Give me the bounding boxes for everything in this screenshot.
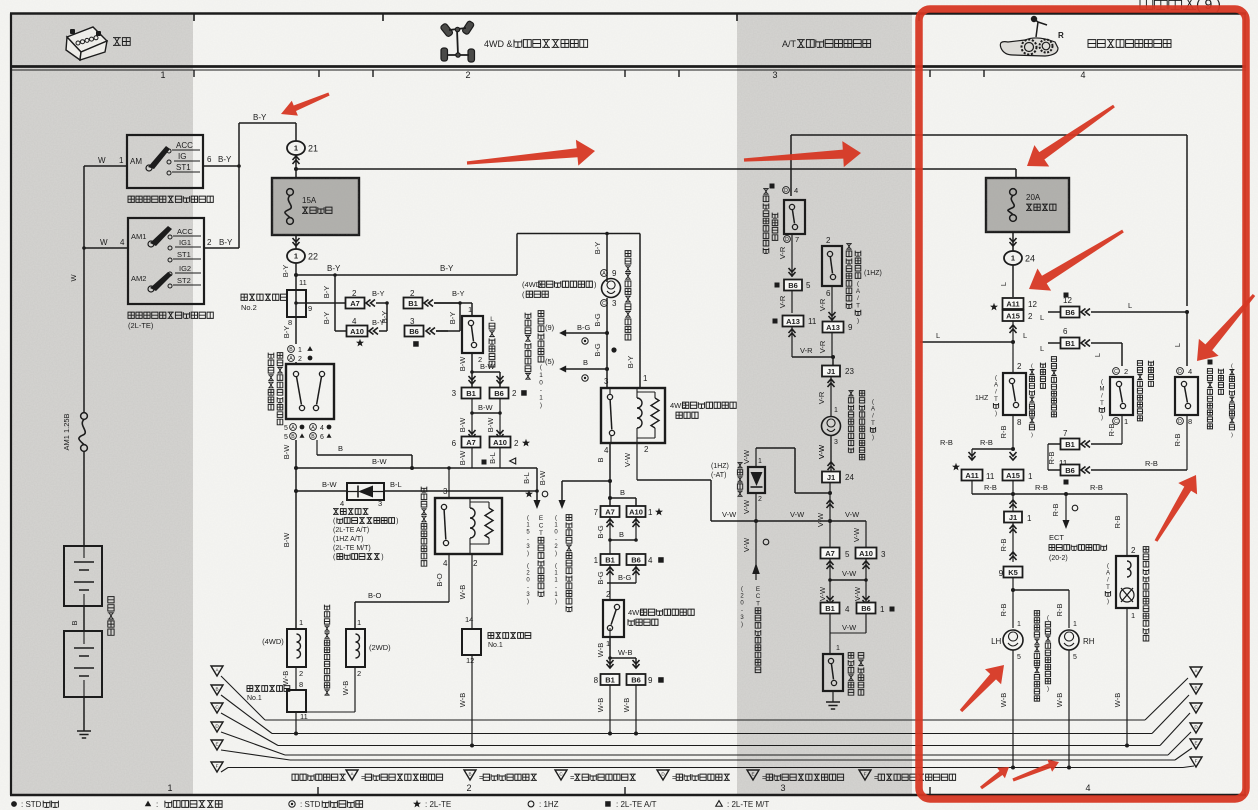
node B branch to A10 <box>608 496 612 500</box>
connector B6 pin11 col4 <box>1059 459 1068 468</box>
svg-text:B-W: B-W <box>478 403 494 412</box>
svg-text:1: 1 <box>294 144 298 153</box>
grey tone column 1 (power source) <box>11 14 193 795</box>
svg-text:L: L <box>1128 301 1132 310</box>
ignition switch upper box <box>127 135 203 188</box>
svg-text:6: 6 <box>452 439 457 448</box>
svg-text:B: B <box>1194 686 1197 691</box>
wire relay pin2 V-W to col3 <box>636 443 638 480</box>
switch backup lamp switch M/T <box>1113 368 1120 375</box>
connector B6 pin1 col3 <box>857 603 876 614</box>
svg-text:R-B: R-B <box>1051 504 1060 517</box>
svg-text:(4WD): (4WD) <box>262 637 284 646</box>
wire below 22 <box>295 263 297 317</box>
svg-text:B-W: B-W <box>372 457 388 466</box>
battery cells lower box <box>64 631 102 697</box>
svg-text:W-B: W-B <box>1113 693 1122 707</box>
svg-text:R-B: R-B <box>1090 483 1103 492</box>
svg-text:T: T <box>1100 401 1104 407</box>
svg-text:4: 4 <box>320 425 324 432</box>
svg-text::: : <box>156 800 158 809</box>
svg-text:C: C <box>539 523 544 530</box>
svg-text:(: ( <box>1231 363 1233 369</box>
label V-R on angle wire <box>800 346 813 355</box>
svg-text:B: B <box>583 358 588 367</box>
svg-text:A7: A7 <box>466 438 476 447</box>
svg-text:C: C <box>756 593 761 600</box>
svg-text:1: 1 <box>299 618 303 627</box>
wire V-R <box>791 290 793 313</box>
svg-text:E: E <box>1194 741 1197 746</box>
svg-text:12: 12 <box>466 656 474 665</box>
svg-text:B-W: B-W <box>486 417 495 433</box>
red arrow 6 at D4 backup switch <box>1197 294 1255 361</box>
label リバースウォーニングブザー vertical <box>1143 547 1149 641</box>
wire below 4WD indicator switch <box>606 639 610 648</box>
svg-text:-: - <box>741 608 743 614</box>
svg-text:W-B: W-B <box>999 693 1008 707</box>
legend row bottom <box>11 801 17 807</box>
svg-text:1: 1 <box>1017 621 1021 628</box>
svg-text:B: B <box>289 347 293 353</box>
svg-text:W-B: W-B <box>622 698 631 712</box>
svg-text:L: L <box>1040 344 1044 353</box>
svg-text:B1: B1 <box>825 604 835 613</box>
svg-text:: 2L-TE A/T: : 2L-TE A/T <box>616 800 657 809</box>
svg-text:B6: B6 <box>1065 466 1075 475</box>
svg-text:R-B: R-B <box>980 438 993 447</box>
svg-text:3: 3 <box>834 439 838 446</box>
svg-text:D: D <box>1178 419 1182 425</box>
label ECTコンピューターへ(15-3)(20-3) vertical <box>526 516 530 558</box>
wire into connector 21 <box>295 123 297 141</box>
svg-text:-: - <box>527 585 529 591</box>
page frame left line <box>10 14 12 796</box>
svg-text:B-O: B-O <box>435 573 444 587</box>
svg-text:9: 9 <box>848 323 853 332</box>
svg-text:): ) <box>527 551 529 557</box>
svg-text:4: 4 <box>604 446 609 455</box>
svg-text:6: 6 <box>320 434 324 441</box>
svg-text:(: ( <box>872 400 874 406</box>
wire junction to J1-23 <box>832 357 834 365</box>
svg-text:14: 14 <box>465 615 473 624</box>
svg-text:E: E <box>751 772 754 777</box>
svg-text:15A: 15A <box>302 196 317 205</box>
svg-text:1: 1 <box>167 783 172 793</box>
wire V-R down <box>791 234 793 277</box>
svg-text:1: 1 <box>1028 472 1033 481</box>
svg-text:A/T: A/T <box>782 39 797 49</box>
connector B1 pin7 col4 <box>1063 429 1068 438</box>
label 2 B-Y <box>207 238 212 247</box>
svg-text:6: 6 <box>207 155 212 164</box>
svg-text:T: T <box>756 601 760 608</box>
svg-text:V-W: V-W <box>790 510 805 519</box>
combination meter 4WD indicator lamp <box>602 279 621 298</box>
label アースポイント and earth legend <box>292 774 346 780</box>
fuse 15A symbol <box>287 189 294 196</box>
wire diode bottom to V-W bus <box>755 493 757 521</box>
svg-text:B-L: B-L <box>522 472 531 484</box>
svg-text:2: 2 <box>466 783 471 793</box>
svg-text:2: 2 <box>299 669 303 678</box>
svg-text:V-W: V-W <box>722 510 737 519</box>
svg-text:B: B <box>619 530 624 539</box>
svg-text:1: 1 <box>834 407 838 414</box>
svg-text:-: - <box>555 537 557 543</box>
svg-text:3: 3 <box>378 499 382 508</box>
svg-text:B-Y: B-Y <box>218 155 232 164</box>
diode front drive <box>296 490 347 492</box>
svg-text:V-R: V-R <box>817 391 826 404</box>
svg-text:ST1: ST1 <box>177 250 191 259</box>
wire below L switch <box>478 355 482 364</box>
wire battery between cells <box>83 606 85 631</box>
svg-text:T: T <box>539 530 543 537</box>
short pin No.1 left box <box>287 690 306 712</box>
svg-text:W: W <box>98 156 106 165</box>
svg-text:9: 9 <box>612 269 617 278</box>
svg-text:B1: B1 <box>408 299 418 308</box>
svg-text:12: 12 <box>1063 296 1072 305</box>
wire right rail to relay pin1 <box>639 234 641 389</box>
svg-text:22: 22 <box>308 252 318 262</box>
svg-text:2: 2 <box>644 445 649 454</box>
wire B-W bus y=468 <box>296 467 537 469</box>
wire B6 left stub <box>1048 311 1060 313</box>
connector J1 pin23 <box>822 366 840 377</box>
svg-text:B-G: B-G <box>577 323 591 332</box>
svg-text:(: ( <box>1107 564 1109 570</box>
connector A7 pin7 <box>601 506 620 517</box>
connector A10 pin4 grid <box>352 317 357 326</box>
svg-text:B-W: B-W <box>322 480 338 489</box>
svg-text:): ) <box>741 622 743 628</box>
wires B1/B6 to A7/A10 <box>471 399 473 442</box>
label イグニッションスイッチ <box>128 196 213 202</box>
red arrow 7 at R-B wire <box>1155 475 1198 542</box>
connector B6 pin9 bottom <box>627 674 646 685</box>
svg-text:/: / <box>857 295 859 302</box>
label ECTコンピューターへ(20-2) <box>1049 533 1064 542</box>
label イグニッションスイッチ(2L-TE) <box>128 312 213 318</box>
label B-Y <box>327 264 341 273</box>
page frame right line <box>1244 14 1246 796</box>
svg-text:IG2: IG2 <box>179 264 191 273</box>
chevron up below A13 <box>789 329 796 337</box>
wire relay pin4 B down <box>609 443 611 506</box>
connector A15 pin1 lower <box>1003 470 1024 481</box>
wires to B1/B6 col3 <box>829 559 831 608</box>
svg-text:): ) <box>555 551 557 557</box>
svg-text:4: 4 <box>1188 367 1192 376</box>
red highlight rectangle around column 4 <box>919 9 1246 799</box>
connector A11 pin12 with star <box>990 303 998 311</box>
svg-text:B-G: B-G <box>593 313 602 327</box>
svg-text:B-Y: B-Y <box>372 318 385 327</box>
ignition switch upper internals <box>130 157 142 166</box>
wire 2WD solenoid joins <box>354 667 356 712</box>
svg-text:B6: B6 <box>494 389 504 398</box>
svg-text:E: E <box>539 515 543 522</box>
switch neutral detect switch <box>823 654 843 691</box>
svg-text:(9): (9) <box>545 323 555 332</box>
wire W-B drops to ground bus <box>609 685 611 734</box>
node B branch to computer (5) <box>605 367 609 371</box>
svg-text:B-W: B-W <box>458 417 467 433</box>
svg-text:2: 2 <box>1131 546 1136 555</box>
svg-text:B: B <box>215 687 218 692</box>
label M/T車 left <box>1099 380 1104 422</box>
svg-text:R-B: R-B <box>984 483 997 492</box>
svg-text:R-B: R-B <box>1047 452 1056 465</box>
chevrons down to B1 B6 bottom <box>607 660 614 668</box>
label 4WDインジケータースイッチ <box>628 608 694 617</box>
svg-text:B6: B6 <box>631 675 641 684</box>
wire A/T switch pin8 down R-B <box>1012 415 1014 449</box>
connector B6 pin5 col3 <box>775 283 780 288</box>
svg-text:B6: B6 <box>409 327 419 336</box>
svg-text:: 2L-TE: : 2L-TE <box>425 800 451 809</box>
svg-text:A: A <box>1106 571 1110 577</box>
wire V-R branch down <box>831 286 833 321</box>
chevrons up below A7 A10 <box>607 519 614 527</box>
svg-text:T: T <box>856 303 860 310</box>
svg-text:B-W: B-W <box>282 444 291 460</box>
label A/T車 left of buzzer <box>1105 564 1110 606</box>
svg-text:(2L-TE M/T): (2L-TE M/T) <box>333 545 371 552</box>
wires below A7/A10 join B-W bus <box>471 448 473 468</box>
svg-text:4: 4 <box>648 556 653 565</box>
svg-text:R-B: R-B <box>940 438 953 447</box>
svg-text:RH: RH <box>1083 637 1095 646</box>
svg-text:11: 11 <box>299 278 307 287</box>
svg-text:W-B: W-B <box>458 585 467 599</box>
wire relay pin4 B-O to 2WD solenoid <box>448 554 450 602</box>
wire L stub left <box>920 341 1013 343</box>
svg-text:2: 2 <box>758 496 762 503</box>
svg-text:(2L-TE): (2L-TE) <box>128 321 154 330</box>
diode 1HZ -AT branch <box>711 463 729 470</box>
svg-text:1: 1 <box>1011 254 1015 263</box>
solenoid 4WD <box>299 618 303 627</box>
svg-text:B-G: B-G <box>596 571 605 585</box>
wire L down to A11 <box>1012 265 1014 297</box>
label ■ and D4 above parking brake switch <box>770 184 775 189</box>
svg-text:R-B: R-B <box>1173 434 1182 447</box>
svg-text:B-Y: B-Y <box>448 312 457 325</box>
svg-text:A10: A10 <box>350 327 364 336</box>
label (20-3) ECTコンピューターから vertical <box>740 587 744 629</box>
svg-text:1: 1 <box>594 556 599 565</box>
svg-text:V-W: V-W <box>742 449 751 464</box>
svg-text:21: 21 <box>308 144 318 154</box>
svg-text:1: 1 <box>643 374 648 383</box>
svg-text:1: 1 <box>1131 611 1135 620</box>
svg-text:A: A <box>291 425 295 431</box>
wire diode top to J1-24 junction <box>755 448 757 467</box>
wire right rail down to D-switch <box>1186 312 1188 366</box>
svg-text:F: F <box>1195 759 1198 764</box>
svg-text:A: A <box>311 425 315 431</box>
wire D-switch pin8 down to B6-11 <box>1186 415 1188 470</box>
svg-text:B-Y: B-Y <box>253 113 267 122</box>
relay front drive relay box <box>443 487 448 496</box>
svg-text:T: T <box>994 397 998 403</box>
svg-text:B1: B1 <box>466 389 476 398</box>
svg-text:): ) <box>995 411 997 417</box>
svg-text:B-L: B-L <box>390 480 402 489</box>
svg-text:2: 2 <box>1124 367 1128 376</box>
label フロントハブロックコンピューター(10-1) vertical <box>525 313 531 380</box>
svg-text:L: L <box>490 316 494 323</box>
svg-text:L: L <box>1093 353 1102 357</box>
svg-text:A: A <box>994 383 998 389</box>
connector B1 pin6 col4 <box>1063 327 1068 336</box>
wire to junction <box>792 356 833 358</box>
red arrow 5 at connector 24 <box>1029 230 1124 291</box>
ignition switch lower internals <box>131 232 146 241</box>
svg-text:A11: A11 <box>965 471 978 480</box>
svg-text:B6: B6 <box>788 281 798 290</box>
svg-text:ACC: ACC <box>176 141 193 150</box>
connector A10 pin3 col3 <box>856 548 877 559</box>
connector B1 pin3 <box>452 389 457 398</box>
svg-text:R-B: R-B <box>1107 424 1116 437</box>
relay 4WD indicator relay U-REL1 box <box>601 388 665 443</box>
svg-text:(-AT): (-AT) <box>711 472 726 479</box>
svg-text:7: 7 <box>795 235 799 244</box>
svg-text:8: 8 <box>288 318 292 327</box>
label フロントドライブリレー vertical <box>421 487 427 567</box>
svg-text:(: ( <box>527 564 529 570</box>
svg-text:AM2: AM2 <box>131 274 146 283</box>
wire ECT branch from R-B bus <box>1072 505 1078 511</box>
svg-text:B-Y: B-Y <box>452 289 465 298</box>
svg-text:: 1HZ: : 1HZ <box>539 800 559 809</box>
battery cells upper box <box>64 546 102 606</box>
svg-text:3: 3 <box>772 70 777 80</box>
solenoid 2WD <box>357 618 361 627</box>
relay internals coil <box>637 398 642 428</box>
header label A/Tパーキングランプ <box>782 39 871 49</box>
svg-text:V-R: V-R <box>778 295 787 308</box>
connector oval 1-22 <box>287 249 305 263</box>
wire K5 to lamps <box>1012 578 1014 628</box>
header battery icon <box>66 27 107 60</box>
svg-text:B-G: B-G <box>593 343 602 357</box>
label A/T車 1HZ left <box>993 376 998 418</box>
svg-text:B-O: B-O <box>368 591 382 600</box>
red arrow 4 at 20A fuse feed <box>1027 105 1115 167</box>
svg-text:5: 5 <box>1017 654 1021 661</box>
svg-text:23: 23 <box>845 367 854 376</box>
svg-text:B: B <box>311 434 315 440</box>
svg-text:R-B: R-B <box>1113 516 1122 529</box>
svg-text:A11: A11 <box>1006 299 1019 308</box>
svg-text:4WD &: 4WD & <box>484 39 513 49</box>
connector J1 pin1 col4 <box>1004 512 1022 523</box>
label 4WDインジケーターランプ <box>522 280 597 289</box>
svg-text:W: W <box>69 274 78 282</box>
svg-text:L: L <box>1040 313 1044 322</box>
svg-text:): ) <box>381 554 383 561</box>
svg-text:A10: A10 <box>629 507 643 516</box>
connector A10 pin2 star <box>490 437 511 448</box>
label 4WDインジケーターリレー <box>670 401 736 410</box>
svg-text:2: 2 <box>514 439 519 448</box>
svg-text:(5): (5) <box>545 357 555 366</box>
svg-text:3: 3 <box>443 487 448 496</box>
svg-text:8: 8 <box>594 676 599 685</box>
label ダイオード(フロントドライブ) etc <box>333 509 368 515</box>
svg-text:J1: J1 <box>827 367 835 376</box>
svg-text:B-Y: B-Y <box>440 264 454 273</box>
svg-text:W-B: W-B <box>596 698 605 712</box>
node main B-Y feed junction <box>295 155 297 178</box>
svg-text:IG1: IG1 <box>179 238 191 247</box>
svg-text:(2L-TE A/T): (2L-TE A/T) <box>333 527 369 534</box>
svg-text:8: 8 <box>1017 418 1022 427</box>
svg-text:4: 4 <box>340 499 344 508</box>
label フロントドライブコントロールスイッチ vertical <box>268 353 274 410</box>
svg-text:): ) <box>872 435 874 441</box>
svg-text:): ) <box>1101 415 1103 421</box>
bottom frame thick line <box>10 794 1246 797</box>
svg-text:11: 11 <box>808 317 817 326</box>
svg-text:D: D <box>1178 369 1182 375</box>
svg-text:B1: B1 <box>1065 339 1075 348</box>
svg-text:B6: B6 <box>861 604 871 613</box>
svg-text:No.2: No.2 <box>241 303 257 312</box>
wire fuse to connector 24 <box>1010 238 1017 246</box>
svg-text:R-B: R-B <box>1145 459 1158 468</box>
svg-text:1: 1 <box>468 305 472 314</box>
svg-text:B-W: B-W <box>458 356 467 372</box>
connector A15 pin2 <box>1003 310 1024 321</box>
wire B6-12 to right rail <box>1091 311 1187 313</box>
svg-text:2: 2 <box>1017 362 1022 371</box>
svg-text:AM: AM <box>130 157 142 166</box>
wire R-B to reverse warning buzzer <box>1126 494 1128 556</box>
svg-text:): ) <box>1031 432 1033 438</box>
svg-text:24: 24 <box>845 473 854 482</box>
svg-text:ST2: ST2 <box>177 276 191 285</box>
node W wire from battery to ignition switches <box>84 165 127 167</box>
short pin No.1 center chain <box>465 615 473 624</box>
svg-text:V-W: V-W <box>817 444 826 459</box>
ground bus right earth triangles <box>1190 667 1202 677</box>
svg-text:A: A <box>602 271 606 277</box>
front drive relay pins <box>443 559 448 568</box>
chevrons up below A15 <box>1010 325 1017 333</box>
svg-text:R-B: R-B <box>999 426 1008 439</box>
svg-text:3: 3 <box>881 550 886 559</box>
svg-text:1: 1 <box>160 70 165 80</box>
svg-text:A10: A10 <box>493 438 507 447</box>
svg-text:W-B: W-B <box>596 643 605 657</box>
page frame top line <box>10 12 1246 15</box>
svg-text:B: B <box>338 444 343 453</box>
red arrow 10 small bottom right <box>1012 760 1059 782</box>
svg-text:7: 7 <box>1063 429 1068 438</box>
svg-text:0: 0 <box>539 379 543 386</box>
svg-text:B-Y: B-Y <box>322 312 331 325</box>
fuse 15A engine box <box>272 178 359 235</box>
svg-text:ACC: ACC <box>177 227 193 236</box>
svg-text:V-R: V-R <box>818 298 827 311</box>
